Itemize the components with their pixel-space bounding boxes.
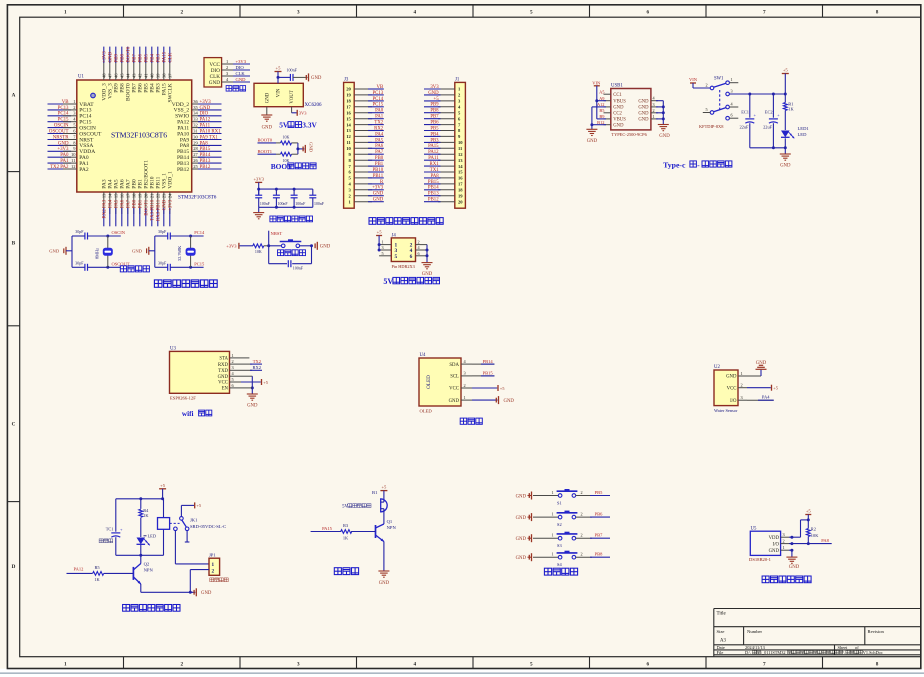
svg-text:100nF: 100nF xyxy=(293,265,304,270)
svg-text:GND: GND xyxy=(163,199,168,210)
header J2 pin 7 xyxy=(349,162,384,169)
title block grid xyxy=(714,609,921,657)
svg-text:PC15: PC15 xyxy=(58,118,69,123)
svg-text:2: 2 xyxy=(226,65,228,70)
mcu bottom pin 19 wire xyxy=(138,179,144,226)
svg-text:TX2: TX2 xyxy=(253,359,261,364)
svg-text:PB3: PB3 xyxy=(157,54,162,63)
svg-text:PB8: PB8 xyxy=(595,552,604,557)
ruler numbers bottom xyxy=(64,661,879,667)
header J2 pin 1 xyxy=(349,198,384,205)
ds18b20 pin 3 VDD xyxy=(769,532,789,541)
svg-text:File: File xyxy=(717,650,724,655)
svg-text:5: 5 xyxy=(382,251,384,256)
reset +3V3 port xyxy=(226,243,253,249)
svg-text:6: 6 xyxy=(647,9,650,15)
svg-text:BOOT0: BOOT0 xyxy=(258,138,273,143)
mcu left pin 9 wire xyxy=(48,146,96,155)
svg-text:PB11: PB11 xyxy=(373,174,384,179)
svg-text:2: 2 xyxy=(741,383,743,388)
svg-text:SWCLK: SWCLK xyxy=(168,83,174,102)
resistor R3 1K xyxy=(311,523,376,540)
buzzer emitter gnd xyxy=(378,542,389,587)
svg-text:22: 22 xyxy=(156,194,161,199)
svg-text:+5: +5 xyxy=(263,380,269,385)
svg-text:5: 5 xyxy=(530,9,533,15)
header J2 pin 12 xyxy=(346,132,384,139)
header J1 pin 6 xyxy=(424,115,461,122)
mcu U1 designator xyxy=(78,75,84,80)
svg-text:GND: GND xyxy=(132,249,143,254)
boot title xyxy=(271,162,316,171)
usb footprint text xyxy=(611,132,647,137)
svg-text:2: 2 xyxy=(581,490,583,495)
relay bottom rail xyxy=(116,554,164,557)
svg-text:12: 12 xyxy=(346,134,351,139)
usb right pin GND 2 xyxy=(638,108,663,117)
power +5 rail typec xyxy=(729,67,788,95)
transistor Q1 xyxy=(376,519,397,541)
svg-text:2: 2 xyxy=(581,512,583,517)
svg-text:GND: GND xyxy=(726,375,737,380)
svg-text:20: 20 xyxy=(346,87,351,92)
svg-text:3: 3 xyxy=(783,532,785,537)
svg-text:19: 19 xyxy=(346,93,351,98)
filter caps gnd xyxy=(253,207,264,219)
svg-text:5: 5 xyxy=(395,254,398,260)
svg-text:GND: GND xyxy=(247,404,258,409)
svg-text:TX2 PA2: TX2 PA2 xyxy=(50,165,69,170)
svg-text:D:\: D:\ xyxy=(745,650,751,655)
mcu top pin 46 wire xyxy=(114,47,120,93)
svg-text:41: 41 xyxy=(144,74,149,79)
svg-text:1: 1 xyxy=(783,545,785,550)
relay emitter gnd rail xyxy=(141,584,196,594)
svg-text:+5: +5 xyxy=(196,503,202,508)
mcu top pin 45 wire xyxy=(120,47,126,93)
svg-text:1K: 1K xyxy=(788,107,794,112)
svg-text:+5: +5 xyxy=(276,65,282,70)
relay common wire to JP1 xyxy=(175,531,209,564)
svg-text:2: 2 xyxy=(653,108,655,113)
svg-text:14: 14 xyxy=(108,193,113,198)
svg-text:30pF: 30pF xyxy=(158,261,167,266)
switch SW1 designator xyxy=(714,77,724,82)
svg-text:SCL: SCL xyxy=(450,375,459,380)
svg-text:RXD: RXD xyxy=(218,363,229,368)
relay +5 power xyxy=(159,483,166,499)
svg-text:SW1: SW1 xyxy=(714,77,724,82)
svg-text:R4: R4 xyxy=(143,508,149,513)
svg-text:SDA: SDA xyxy=(449,363,459,368)
svg-text:GND: GND xyxy=(320,245,331,250)
svg-text:2: 2 xyxy=(464,383,466,388)
oled vertical name xyxy=(426,375,432,389)
header J2 pin 10 xyxy=(346,144,384,151)
svg-text:8MHz: 8MHz xyxy=(94,248,99,259)
svg-text:25: 25 xyxy=(193,164,198,169)
svg-text:V1.SchDoc: V1.SchDoc xyxy=(863,650,883,655)
power +5 at regulator xyxy=(275,65,282,77)
svg-text:S3: S3 xyxy=(557,543,562,548)
mcu top pin 39 wire xyxy=(156,47,162,93)
filter cap rails xyxy=(257,188,313,209)
resistor R1 1K xyxy=(783,94,794,130)
header J1 pin 18 xyxy=(424,186,463,193)
mcu top pin 37 wire xyxy=(168,47,174,103)
header J1 pin 14 xyxy=(424,162,463,169)
relay coil JK1 xyxy=(158,518,170,530)
svg-text:GND: GND xyxy=(449,399,460,404)
svg-text:8: 8 xyxy=(876,9,879,15)
regulator body xyxy=(254,83,303,106)
svg-text:NPN: NPN xyxy=(387,525,397,530)
svg-text:GND: GND xyxy=(516,494,527,499)
net label BOOT1 xyxy=(258,149,277,154)
svg-text:PB5: PB5 xyxy=(430,126,439,131)
backup header row 3 pins xyxy=(379,251,427,260)
header J2 pin 17 xyxy=(346,103,384,110)
mcu bottom pin 22 wire xyxy=(156,176,162,226)
header J2 pin 15 xyxy=(346,115,384,122)
svg-text:2: 2 xyxy=(418,240,420,245)
svg-text:GND: GND xyxy=(201,591,212,596)
svg-text:1: 1 xyxy=(552,552,554,557)
svg-text:GND: GND xyxy=(209,80,220,86)
svg-text:PB6: PB6 xyxy=(595,512,604,517)
svg-text:PB4: PB4 xyxy=(151,54,156,63)
wifi footprint text xyxy=(170,395,196,400)
led D1 relay xyxy=(137,533,157,555)
svg-text:CLK: CLK xyxy=(169,52,174,62)
svg-text:PB9: PB9 xyxy=(115,54,120,63)
svg-text:PA1: PA1 xyxy=(60,159,69,164)
svg-text:NPN: NPN xyxy=(144,567,154,572)
svg-text:34: 34 xyxy=(193,111,198,116)
key S1 net PB5 xyxy=(595,490,604,495)
svg-text:R1: R1 xyxy=(788,101,793,106)
svg-text:40: 40 xyxy=(150,73,155,78)
title block text xyxy=(717,612,885,656)
mcu right pin 25 wire xyxy=(177,164,222,173)
svg-text:TX3 PB10: TX3 PB10 xyxy=(151,199,156,221)
svg-text:20: 20 xyxy=(144,193,149,198)
svg-text:EN: EN xyxy=(222,387,229,392)
oled pin 4 SDA xyxy=(449,359,472,368)
usb right pin GND 4 xyxy=(638,96,663,105)
relay contacts xyxy=(174,517,189,531)
svg-text:S1: S1 xyxy=(557,500,562,505)
svg-text:A9: A9 xyxy=(599,96,605,101)
headers title xyxy=(369,218,443,225)
svg-text:PB0: PB0 xyxy=(133,199,138,208)
svg-text:+3V3: +3V3 xyxy=(57,147,69,152)
mcu min system title xyxy=(154,280,217,287)
svg-text:3V3: 3V3 xyxy=(430,85,439,90)
svg-text:30pF: 30pF xyxy=(75,229,84,234)
buzzer cjk label xyxy=(342,504,371,510)
svg-text:16: 16 xyxy=(120,193,125,198)
key S2 gnd xyxy=(516,513,532,521)
mcu right pin 29 wire xyxy=(180,140,222,149)
mcu left pin 8 wire xyxy=(48,140,94,149)
header J1 pin 12 xyxy=(424,150,463,157)
usb gnd bus left xyxy=(586,107,606,144)
svg-text:2: 2 xyxy=(181,9,184,15)
svg-text:14: 14 xyxy=(346,122,351,127)
svg-text:GND: GND xyxy=(373,198,384,203)
svg-text:NRSTR: NRSTR xyxy=(53,135,70,140)
svg-text:4: 4 xyxy=(414,661,417,667)
mcu bottom pin 17 wire xyxy=(126,179,132,226)
wifi gnd bus xyxy=(241,376,258,408)
key S4 net PB8 xyxy=(595,552,604,557)
svg-text:1: 1 xyxy=(552,490,554,495)
svg-text:1: 1 xyxy=(64,9,67,15)
svg-text:VCC: VCC xyxy=(218,381,228,386)
svg-text:KFTDIP-8X8: KFTDIP-8X8 xyxy=(699,124,724,129)
svg-text:PA9 TX1: PA9 TX1 xyxy=(200,135,219,140)
svg-text:3V3: 3V3 xyxy=(299,111,307,116)
header J1 pin 4 xyxy=(424,103,461,110)
mcu right pin 34 wire xyxy=(175,111,221,120)
svg-text:B5: B5 xyxy=(599,108,605,113)
crystal circuit Y2 32.768K xyxy=(132,229,205,271)
svg-text:R5: R5 xyxy=(94,565,100,570)
svg-text:10K: 10K xyxy=(811,533,819,538)
svg-text:PB0: PB0 xyxy=(375,156,384,161)
mcu left pin 1 wire xyxy=(48,99,95,108)
mcu top pin 43 wire xyxy=(132,47,138,93)
svg-text:PB15: PB15 xyxy=(428,180,439,185)
crystal circuit Y1 8MHz xyxy=(49,229,130,271)
svg-text:PC13: PC13 xyxy=(58,106,69,111)
svg-text:100nF: 100nF xyxy=(278,202,289,206)
svg-text:PB14: PB14 xyxy=(200,153,211,158)
svg-text:PB15: PB15 xyxy=(200,147,211,152)
usb left pin B12 xyxy=(597,120,624,129)
svg-text:26: 26 xyxy=(193,158,198,163)
mcu right pin 31 wire xyxy=(177,128,221,137)
svg-text:GND: GND xyxy=(262,125,273,130)
wifi module body xyxy=(170,347,230,394)
svg-text:PC13: PC13 xyxy=(373,91,384,96)
resistor R2 10K xyxy=(806,527,819,544)
backup gnd bus xyxy=(422,245,433,277)
svg-text:A3: A3 xyxy=(720,639,726,644)
svg-text:1K: 1K xyxy=(94,577,100,582)
mcu top pin 47 wire xyxy=(108,47,114,99)
svg-text:1: 1 xyxy=(232,353,234,358)
svg-text:PA5: PA5 xyxy=(375,138,384,143)
svg-text:+3V3: +3V3 xyxy=(372,186,384,191)
svg-text:17: 17 xyxy=(458,182,463,187)
header J2 pin 2 xyxy=(349,192,384,199)
svg-text:+3V3: +3V3 xyxy=(253,176,264,181)
svg-text:OLED: OLED xyxy=(426,375,432,389)
svg-text:+5: +5 xyxy=(433,97,439,102)
svg-text:30pF: 30pF xyxy=(75,261,84,266)
svg-text:A5: A5 xyxy=(599,89,605,94)
svg-text:GND: GND xyxy=(265,92,270,103)
header J2 pin 19 xyxy=(346,91,384,98)
svg-text:PA8: PA8 xyxy=(821,538,829,543)
relay JK1 labels xyxy=(190,517,226,529)
svg-text:EC2: EC2 xyxy=(765,110,773,115)
svg-text:GND: GND xyxy=(613,106,624,111)
key S3 button xyxy=(533,532,610,548)
keys title xyxy=(544,568,577,575)
svg-text:Revision: Revision xyxy=(868,629,885,634)
svg-text:12: 12 xyxy=(71,164,76,169)
svg-text:S4: S4 xyxy=(557,562,562,567)
key S4 gnd xyxy=(516,553,532,561)
svg-text:6: 6 xyxy=(410,254,413,260)
svg-text:2: 2 xyxy=(783,539,785,544)
svg-text:GND: GND xyxy=(373,192,384,197)
svg-text:1: 1 xyxy=(552,512,554,517)
header J2 pin 11 xyxy=(346,138,383,145)
ds18b20 pin 2 I/O xyxy=(773,539,789,548)
svg-text:A12: A12 xyxy=(597,102,605,107)
svg-text:PB5: PB5 xyxy=(145,54,150,63)
wire vin node xyxy=(277,76,291,83)
mcu left pin 2 wire xyxy=(48,105,92,114)
svg-text:6: 6 xyxy=(731,113,733,118)
gnd of boot circuit xyxy=(303,142,313,153)
svg-text:7: 7 xyxy=(763,9,766,15)
usb left pin B5 xyxy=(599,108,622,117)
svg-text:13: 13 xyxy=(346,128,351,133)
capacitor C6 100nF reset xyxy=(269,260,312,270)
svg-text:3: 3 xyxy=(297,9,300,15)
svg-text:24: 24 xyxy=(168,193,173,198)
svg-text:S2: S2 xyxy=(557,522,562,527)
svg-text:39: 39 xyxy=(156,73,161,78)
oled PB15 net xyxy=(472,371,494,376)
svg-text:1: 1 xyxy=(382,240,384,245)
svg-text:VBUS: VBUS xyxy=(613,99,626,104)
key S3 net PB7 xyxy=(595,533,604,538)
water sensor pin 2 VCC xyxy=(727,383,747,392)
svg-text:GND: GND xyxy=(780,163,791,168)
svg-text:DIO: DIO xyxy=(236,65,245,70)
svg-text:PA6: PA6 xyxy=(375,144,384,149)
mcu pin1 dot xyxy=(91,93,96,98)
ds18b20 io wire PA8 xyxy=(789,538,832,545)
svg-text:30: 30 xyxy=(193,134,198,139)
wifi title xyxy=(182,410,212,418)
svg-text:I/O: I/O xyxy=(730,399,737,404)
svg-text:10: 10 xyxy=(458,140,463,145)
svg-text:PA0: PA0 xyxy=(60,153,69,158)
svg-text:48: 48 xyxy=(102,73,107,78)
svg-text:LED1: LED1 xyxy=(798,126,810,131)
switch SW1 contact 3 xyxy=(726,89,733,96)
header J2 pin 3 xyxy=(349,186,384,193)
svg-text:-: - xyxy=(697,160,700,169)
svg-text:10: 10 xyxy=(71,152,76,157)
header J2 body xyxy=(344,78,355,209)
usb left pin A9 xyxy=(599,96,626,105)
mcu bottom pin 15 wire xyxy=(114,179,120,226)
mcu bottom pin 16 wire xyxy=(120,179,126,226)
svg-text:GND: GND xyxy=(587,139,598,144)
header J1 pin 2 xyxy=(424,91,461,98)
capacitor TC1 tantalum xyxy=(106,499,123,556)
svg-text:TYPEC-2500-9CP6: TYPEC-2500-9CP6 xyxy=(611,132,647,137)
svg-text:1K: 1K xyxy=(143,513,149,518)
mcu right pin 32 wire xyxy=(177,123,221,132)
svg-text:RX3 PB11: RX3 PB11 xyxy=(157,199,162,221)
header J1 pin 3 xyxy=(424,97,461,104)
svg-text:GND: GND xyxy=(236,77,247,82)
svg-text:PB14: PB14 xyxy=(428,186,439,191)
svg-text:PA15: PA15 xyxy=(322,526,333,531)
svg-text:13: 13 xyxy=(458,158,463,163)
svg-text:PA7: PA7 xyxy=(127,199,132,208)
svg-text:+5: +5 xyxy=(783,67,789,72)
svg-text:JK1: JK1 xyxy=(190,517,198,522)
svg-text:+3V3: +3V3 xyxy=(169,199,174,211)
svg-text:B9: B9 xyxy=(599,114,605,119)
svg-text:17: 17 xyxy=(346,105,351,110)
svg-text:29: 29 xyxy=(193,140,198,145)
connector JP1 footprint xyxy=(210,578,228,582)
backup header row 1 pins xyxy=(379,240,427,249)
svg-text:RX1: RX1 xyxy=(430,162,440,167)
reset gnd xyxy=(315,242,331,250)
svg-text:PA1: PA1 xyxy=(375,115,384,120)
ds18b20 gnd xyxy=(786,549,799,571)
ds18b20 +5 power xyxy=(805,508,811,528)
water sensor PA4 net xyxy=(747,394,774,400)
filter capacitor C2 100nF xyxy=(273,189,288,207)
mcu right pin 30 wire xyxy=(180,134,222,143)
svg-text:PA15: PA15 xyxy=(163,51,168,62)
svg-text:47: 47 xyxy=(108,73,113,78)
svg-text:GND: GND xyxy=(308,142,313,153)
mcu left pin 12 wire xyxy=(48,164,89,173)
svg-text:RX2: RX2 xyxy=(374,126,384,131)
svg-text:PA4: PA4 xyxy=(109,199,114,208)
header J2 pin 18 xyxy=(346,97,384,104)
header J1 body xyxy=(455,78,466,209)
svg-text:10: 10 xyxy=(346,146,351,151)
resistor R7 10K xyxy=(276,152,298,163)
svg-text:3: 3 xyxy=(731,89,733,94)
mcu U1 body xyxy=(77,80,192,192)
svg-text:+3V3: +3V3 xyxy=(236,59,247,64)
svg-text:PA4: PA4 xyxy=(762,394,770,399)
svg-text:44: 44 xyxy=(126,73,131,78)
svg-text:GND: GND xyxy=(109,51,114,62)
svg-text:J1: J1 xyxy=(455,78,460,83)
svg-text:2: 2 xyxy=(706,83,708,88)
mcu bottom pin 13 wire xyxy=(102,179,108,226)
header J1 pin 13 xyxy=(424,156,463,163)
svg-text:VIN: VIN xyxy=(277,88,282,97)
svg-text:5V: 5V xyxy=(342,505,348,510)
switch SW1 contact 6 xyxy=(726,113,739,120)
svg-text:GND: GND xyxy=(638,118,649,123)
wifi pin 5 VCC xyxy=(218,377,241,386)
svg-text:wifi: wifi xyxy=(182,410,194,418)
svg-text:16: 16 xyxy=(346,110,351,115)
svg-text:31: 31 xyxy=(193,128,198,133)
svg-text:PA5: PA5 xyxy=(115,199,120,208)
oled pin 3 SCL xyxy=(450,371,472,380)
